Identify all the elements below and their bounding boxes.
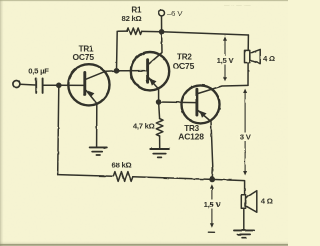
resistor R2 68k zigzag	[113, 172, 132, 182]
capacitor C1	[35, 78, 37, 93]
measure arrow 3V	[243, 89, 247, 176]
transistor TR1 circle	[68, 64, 109, 105]
wire bottom rail left segment	[58, 175, 114, 177]
wire node A down to bottom rail	[58, 85, 59, 174]
transistor TR3 collector	[198, 85, 248, 93]
wire node E to TR3 base	[159, 101, 196, 104]
transistor TR2 base bar	[146, 60, 149, 82]
node C junction dot (TR1 collector / R1 / TR2 base)	[114, 68, 120, 74]
svg-text:4 Ω: 4 Ω	[261, 197, 273, 206]
wire capacitor to node A	[44, 84, 59, 86]
transistor TR3 base bar	[195, 89, 198, 115]
svg-text:OC75: OC75	[72, 52, 94, 62]
label 1,5 V bottom	[203, 200, 223, 209]
node D junction dot	[159, 29, 165, 35]
faint print-through marks top right	[224, 3, 251, 9]
transistor TR1 base bar	[83, 72, 86, 94]
svg-text:4 Ω: 4 Ω	[263, 54, 275, 63]
wire input to capacitor	[20, 83, 35, 86]
resistor R3 4.7k zigzag	[156, 119, 163, 136]
label 3 V	[238, 133, 253, 142]
ground reference dash	[208, 231, 214, 233]
wire top rail	[162, 32, 249, 35]
transistor TR3 circle	[182, 85, 220, 123]
wire top speaker to collector line	[247, 63, 249, 86]
node A junction dot	[56, 83, 62, 89]
loudspeaker LS1	[245, 50, 250, 62]
wire rail corner to top speaker	[247, 35, 249, 50]
transistor TR1 emitter	[86, 91, 97, 147]
wire node E down to 4.7k	[159, 102, 160, 119]
svg-text:— ·· — ·—: — ·· — ·—	[224, 3, 251, 9]
loudspeaker LS2	[241, 195, 245, 209]
ground under 4.7k	[150, 148, 169, 150]
wire 4.7k to ground	[159, 136, 161, 148]
transistor TR2 circle	[131, 52, 169, 90]
svg-text:68 kΩ: 68 kΩ	[112, 160, 132, 169]
wire R1 to node D	[142, 30, 162, 32]
input terminal	[13, 81, 20, 88]
svg-text:0,5 µF: 0,5 µF	[28, 66, 49, 75]
transistor TR2 collector	[149, 32, 162, 64]
transistor TR2 emitter	[149, 78, 159, 102]
resistor R1 82k zigzag	[127, 28, 141, 35]
svg-text:3 V: 3 V	[240, 133, 252, 142]
svg-text:1,5 V: 1,5 V	[217, 56, 235, 65]
wire node A to TR1 base	[59, 84, 85, 86]
wire 68k to node B	[133, 177, 212, 180]
measure arrow 1.5V bottom	[208, 184, 214, 232]
wire terminal to node D	[161, 16, 163, 32]
transistor TR1 collector	[86, 71, 117, 79]
wire node B to bottom speaker corner	[212, 179, 244, 194]
svg-text:AC128: AC128	[178, 132, 204, 142]
transistor TR1 emitter arrow	[88, 91, 95, 98]
svg-text:1,5 V: 1,5 V	[204, 200, 222, 209]
transistor TR3 emitter	[198, 111, 213, 180]
ground under LS2	[234, 229, 254, 231]
svg-text:82 kΩ: 82 kΩ	[122, 14, 142, 23]
svg-text:OC75: OC75	[173, 61, 195, 71]
label 1,5 V top	[216, 56, 236, 65]
supply terminal -6V	[159, 10, 165, 16]
ground under TR1	[90, 146, 107, 148]
node B junction dot	[209, 177, 215, 183]
node E junction dot (TR2 emitter / 4.7k / TR3 base)	[156, 99, 162, 105]
transistor TR3 emitter arrow	[199, 111, 206, 118]
svg-text:4,7 kΩ: 4,7 kΩ	[133, 122, 155, 131]
wire node C up to R1	[117, 31, 128, 71]
wire node C to TR2 base	[117, 70, 148, 72]
svg-text:–6 V: –6 V	[167, 9, 183, 18]
transistor TR2 emitter arrow	[149, 78, 156, 85]
measure arrow 1.5V top	[223, 36, 227, 81]
wire bottom speaker lead	[243, 208, 245, 229]
